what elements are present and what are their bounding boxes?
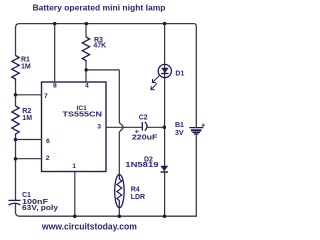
node: C2 junction dot bbox=[163, 126, 167, 130]
svg-text:B1: B1 bbox=[175, 122, 184, 129]
wire: LDR to bottom rail bbox=[118, 208, 120, 216]
wire: left rail segment above R1 bbox=[15, 27, 17, 56]
svg-text:www.circuitstoday.com: www.circuitstoday.com bbox=[41, 222, 137, 232]
wire: left rail R2 to C1 bbox=[15, 136, 17, 201]
svg-text:D1: D1 bbox=[175, 70, 184, 77]
wire: C2 to D1 branch bbox=[147, 126, 165, 128]
wire: LDR branch vertical upper bbox=[118, 70, 120, 122]
capacitor C1 bbox=[9, 199, 21, 201]
diode D2 bbox=[161, 166, 168, 171]
wire: left rail R1 to R2 bbox=[15, 81, 17, 106]
resistor R1 bbox=[12, 56, 19, 82]
LED D1 bbox=[158, 64, 171, 77]
resistor R3 bbox=[82, 37, 89, 63]
svg-text:220uF: 220uF bbox=[132, 135, 158, 142]
node: pin7 junction dot bbox=[14, 93, 18, 97]
wire: LDR branch vertical lower bbox=[118, 133, 120, 175]
wire: pin 3 to C2 bbox=[106, 126, 142, 128]
wire: pin 1 vertical bbox=[74, 172, 76, 217]
svg-text:2: 2 bbox=[46, 155, 50, 162]
svg-text:63V, poly: 63V, poly bbox=[22, 205, 58, 212]
svg-text:8: 8 bbox=[53, 82, 57, 89]
svg-text:LDR: LDR bbox=[131, 194, 145, 201]
LED D1 emission arrows bbox=[153, 75, 160, 82]
wire: hop over pin3 wire bbox=[119, 122, 123, 134]
svg-text:47K: 47K bbox=[93, 43, 106, 50]
battery B1 bbox=[189, 127, 203, 129]
node: R3 junction dot bbox=[84, 68, 88, 72]
svg-text:1M: 1M bbox=[21, 63, 31, 70]
svg-text:C2: C2 bbox=[139, 114, 148, 121]
svg-text:+: + bbox=[201, 120, 206, 129]
wire: pin 7 horizontal bbox=[16, 94, 42, 96]
svg-text:1N5819: 1N5819 bbox=[125, 162, 158, 169]
svg-text:TS555CN: TS555CN bbox=[63, 111, 103, 118]
wire: pin 6 horizontal bbox=[16, 139, 42, 141]
wire: top supply rail bbox=[16, 24, 197, 127]
node: pin1 bottom rail dot bbox=[73, 214, 77, 218]
svg-text:6: 6 bbox=[46, 138, 50, 145]
capacitor C2 bbox=[141, 122, 143, 131]
svg-text:1M: 1M bbox=[22, 115, 32, 122]
wire: pin 8 vertical bbox=[54, 24, 56, 82]
svg-text:7: 7 bbox=[44, 93, 48, 100]
wire: junction to LDR branch horizontal bbox=[86, 69, 119, 71]
LDR R4 bbox=[115, 174, 124, 207]
wire: R3 to pin4 bbox=[85, 63, 87, 82]
svg-text:R1: R1 bbox=[21, 56, 30, 63]
node: D2 bottom rail dot bbox=[163, 214, 167, 218]
resistor R2 bbox=[12, 106, 19, 136]
wire: pin 2 horizontal bbox=[16, 158, 42, 160]
wire: D1 branch from top rail bbox=[164, 24, 166, 166]
wire: R3 branch top bbox=[85, 24, 87, 37]
node: LDR bottom rail dot bbox=[118, 214, 122, 218]
svg-text:R4: R4 bbox=[131, 186, 140, 193]
wire: D2 to bottom rail bbox=[164, 173, 166, 217]
svg-text:1: 1 bbox=[72, 163, 76, 170]
svg-text:Battery operated mini night la: Battery operated mini night lamp bbox=[33, 2, 166, 12]
wire: left rail C1 to bottom corner and bottom rail bbox=[16, 135, 197, 217]
svg-text:3V: 3V bbox=[175, 130, 184, 137]
node: pin6 junction dot bbox=[14, 138, 18, 142]
node: pin2 junction dot bbox=[14, 157, 18, 161]
svg-text:4: 4 bbox=[85, 83, 89, 90]
node: top rail dot R3 branch bbox=[85, 22, 89, 26]
node: top rail dot pin8 branch bbox=[53, 22, 57, 26]
svg-text:3: 3 bbox=[97, 123, 101, 130]
IC1 TS555CN timer box bbox=[42, 82, 107, 172]
node: top rail dot D1 branch bbox=[163, 22, 167, 26]
